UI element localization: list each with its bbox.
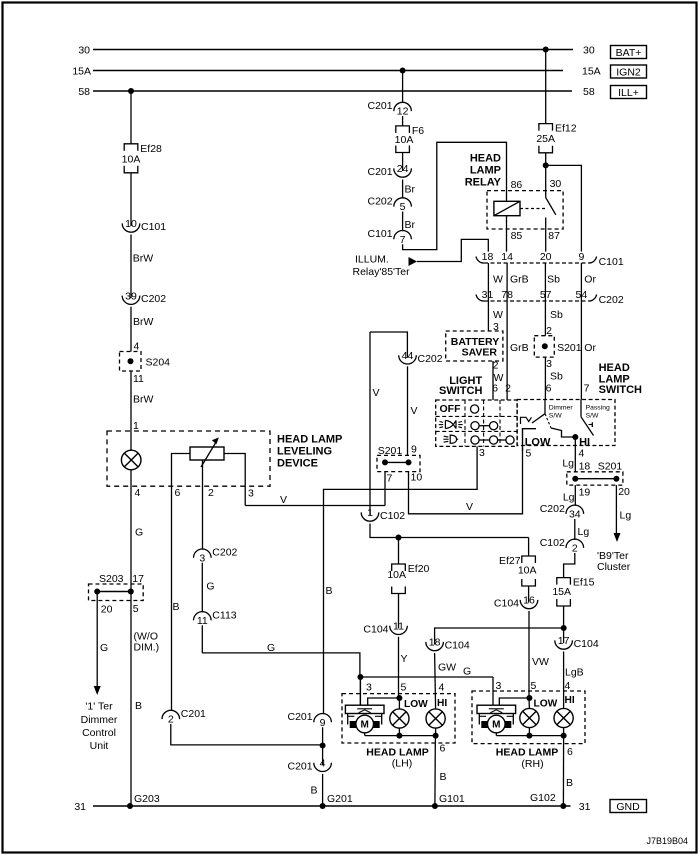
svg-text:BrW: BrW bbox=[133, 253, 154, 265]
svg-text:Sb: Sb bbox=[547, 274, 560, 286]
svg-text:39: 39 bbox=[125, 290, 137, 302]
svg-text:18: 18 bbox=[482, 251, 494, 263]
svg-text:C104: C104 bbox=[574, 638, 599, 650]
svg-text:HEAD: HEAD bbox=[599, 362, 630, 374]
svg-text:7: 7 bbox=[584, 382, 590, 394]
svg-text:17: 17 bbox=[558, 635, 570, 647]
svg-text:7: 7 bbox=[387, 473, 393, 485]
svg-text:30: 30 bbox=[78, 45, 90, 57]
svg-text:85: 85 bbox=[511, 230, 523, 242]
svg-text:LOW: LOW bbox=[534, 699, 558, 710]
svg-text:C201: C201 bbox=[367, 100, 392, 112]
svg-text:HEAD LAMP: HEAD LAMP bbox=[277, 434, 342, 446]
svg-text:SWITCH: SWITCH bbox=[599, 384, 642, 396]
svg-text:HI: HI bbox=[437, 698, 447, 709]
svg-text:4: 4 bbox=[565, 680, 571, 692]
svg-text:10A: 10A bbox=[518, 565, 537, 577]
svg-text:5: 5 bbox=[531, 680, 537, 692]
svg-text:G: G bbox=[267, 642, 275, 654]
svg-text:BAT+: BAT+ bbox=[616, 47, 642, 59]
svg-text:18: 18 bbox=[429, 637, 441, 649]
svg-text:15A: 15A bbox=[582, 66, 601, 78]
svg-text:HI: HI bbox=[579, 436, 590, 448]
svg-text:Ef20: Ef20 bbox=[408, 563, 430, 575]
svg-text:Lg: Lg bbox=[562, 458, 574, 470]
svg-text:Relay'85'Ter: Relay'85'Ter bbox=[353, 266, 411, 278]
svg-text:5: 5 bbox=[400, 201, 406, 213]
svg-text:B: B bbox=[440, 771, 447, 783]
svg-text:Cluster: Cluster bbox=[597, 561, 631, 573]
svg-text:15A: 15A bbox=[552, 586, 571, 598]
svg-text:G101: G101 bbox=[439, 793, 465, 805]
svg-text:10: 10 bbox=[411, 472, 423, 484]
svg-text:'1' Ter: '1' Ter bbox=[85, 701, 113, 713]
svg-text:9: 9 bbox=[411, 444, 417, 456]
svg-text:S201: S201 bbox=[598, 461, 623, 473]
svg-text:87: 87 bbox=[548, 230, 560, 242]
svg-text:10A: 10A bbox=[122, 153, 141, 165]
svg-text:5: 5 bbox=[526, 448, 532, 460]
svg-text:OFF: OFF bbox=[440, 403, 462, 415]
svg-text:30: 30 bbox=[550, 178, 562, 190]
svg-text:M: M bbox=[361, 720, 369, 731]
svg-text:V: V bbox=[373, 387, 380, 399]
svg-text:RELAY: RELAY bbox=[465, 177, 502, 189]
svg-text:9: 9 bbox=[320, 717, 326, 729]
svg-text:HEAD LAMP: HEAD LAMP bbox=[496, 747, 558, 759]
svg-text:3: 3 bbox=[248, 488, 254, 500]
svg-text:C202: C202 bbox=[212, 547, 237, 559]
svg-text:9: 9 bbox=[578, 251, 584, 263]
svg-text:S201: S201 bbox=[378, 445, 403, 457]
svg-text:GrB: GrB bbox=[510, 274, 529, 286]
svg-text:W: W bbox=[493, 274, 503, 286]
svg-text:DEVICE: DEVICE bbox=[277, 458, 318, 470]
svg-text:1: 1 bbox=[367, 507, 373, 519]
svg-text:DIM.): DIM.) bbox=[134, 642, 160, 654]
svg-text:Or: Or bbox=[584, 274, 596, 286]
svg-text:19: 19 bbox=[579, 486, 591, 498]
svg-text:20: 20 bbox=[618, 486, 630, 498]
svg-text:Sb: Sb bbox=[550, 309, 563, 321]
svg-text:S/W: S/W bbox=[586, 412, 599, 419]
svg-text:2: 2 bbox=[505, 382, 511, 394]
svg-text:Br: Br bbox=[405, 184, 416, 196]
svg-text:C201: C201 bbox=[181, 708, 206, 720]
svg-text:34: 34 bbox=[569, 508, 581, 520]
svg-text:G: G bbox=[100, 642, 108, 654]
svg-text:44: 44 bbox=[402, 350, 414, 362]
svg-text:V: V bbox=[411, 405, 418, 417]
svg-text:11: 11 bbox=[393, 621, 404, 633]
svg-text:Unit: Unit bbox=[90, 740, 109, 752]
svg-text:31: 31 bbox=[482, 289, 494, 301]
svg-text:(RH): (RH) bbox=[521, 758, 543, 770]
svg-text:16: 16 bbox=[523, 595, 535, 607]
svg-text:C202: C202 bbox=[540, 503, 565, 515]
svg-text:B: B bbox=[326, 585, 333, 597]
svg-text:4: 4 bbox=[135, 487, 141, 499]
svg-text:C101: C101 bbox=[141, 221, 166, 233]
svg-text:4: 4 bbox=[320, 758, 326, 770]
svg-text:24: 24 bbox=[397, 163, 409, 175]
svg-text:Passing: Passing bbox=[586, 405, 610, 412]
svg-text:2: 2 bbox=[168, 714, 174, 726]
svg-text:14: 14 bbox=[501, 251, 513, 263]
svg-text:58: 58 bbox=[583, 86, 595, 98]
svg-text:GND: GND bbox=[616, 801, 640, 813]
svg-text:Control: Control bbox=[82, 727, 116, 739]
svg-text:2: 2 bbox=[493, 360, 499, 372]
svg-text:Y: Y bbox=[401, 653, 408, 665]
svg-text:6: 6 bbox=[440, 743, 446, 755]
svg-text:11: 11 bbox=[197, 615, 208, 627]
svg-text:Ef28: Ef28 bbox=[140, 143, 162, 155]
svg-text:G203: G203 bbox=[134, 793, 160, 805]
svg-text:Sb: Sb bbox=[550, 371, 563, 383]
svg-text:GW: GW bbox=[438, 662, 456, 674]
svg-text:F6: F6 bbox=[412, 125, 424, 137]
svg-text:B: B bbox=[173, 601, 180, 613]
svg-text:6: 6 bbox=[567, 746, 573, 758]
svg-text:12: 12 bbox=[397, 106, 409, 118]
svg-text:C201: C201 bbox=[367, 166, 392, 178]
svg-text:C104: C104 bbox=[363, 623, 388, 635]
svg-text:V: V bbox=[280, 494, 287, 506]
svg-text:G: G bbox=[463, 666, 471, 678]
svg-text:C104: C104 bbox=[445, 640, 470, 652]
svg-text:86: 86 bbox=[511, 179, 523, 191]
svg-text:ILLUM.: ILLUM. bbox=[355, 254, 389, 266]
svg-text:C102: C102 bbox=[540, 537, 565, 549]
svg-text:Br: Br bbox=[405, 219, 416, 231]
svg-text:Lg: Lg bbox=[620, 510, 632, 522]
svg-text:B: B bbox=[135, 700, 142, 712]
svg-text:C104: C104 bbox=[494, 598, 519, 610]
svg-text:B: B bbox=[310, 785, 317, 797]
svg-text:LOW: LOW bbox=[404, 699, 428, 710]
svg-text:2: 2 bbox=[572, 542, 578, 554]
svg-text:C202: C202 bbox=[599, 294, 624, 306]
svg-text:LAMP: LAMP bbox=[470, 165, 501, 177]
svg-text:3: 3 bbox=[366, 682, 372, 694]
svg-text:15A: 15A bbox=[72, 66, 91, 78]
svg-text:7: 7 bbox=[400, 234, 406, 246]
svg-text:10A: 10A bbox=[395, 134, 414, 146]
svg-text:Dimmer: Dimmer bbox=[81, 714, 118, 726]
svg-text:Ef12: Ef12 bbox=[555, 123, 577, 135]
svg-text:HEAD: HEAD bbox=[470, 153, 501, 165]
svg-text:C201: C201 bbox=[287, 760, 312, 772]
svg-text:VW: VW bbox=[532, 656, 549, 668]
svg-text:Dimmer: Dimmer bbox=[549, 405, 574, 412]
svg-text:4: 4 bbox=[134, 341, 140, 353]
svg-text:S203: S203 bbox=[99, 573, 124, 585]
svg-text:30: 30 bbox=[583, 45, 595, 57]
svg-text:BrW: BrW bbox=[133, 316, 154, 328]
svg-text:S201: S201 bbox=[557, 342, 582, 354]
svg-text:SAVER: SAVER bbox=[462, 346, 498, 358]
svg-text:5: 5 bbox=[133, 603, 139, 615]
svg-text:C102: C102 bbox=[380, 510, 405, 522]
svg-text:10A: 10A bbox=[387, 569, 406, 581]
svg-text:10: 10 bbox=[125, 218, 137, 230]
svg-text:J7B19B04: J7B19B04 bbox=[646, 836, 688, 846]
svg-text:(LH): (LH) bbox=[392, 758, 412, 770]
svg-text:20: 20 bbox=[540, 251, 552, 263]
svg-text:C101: C101 bbox=[599, 256, 624, 268]
svg-text:18: 18 bbox=[579, 461, 591, 473]
svg-text:6: 6 bbox=[546, 382, 552, 394]
svg-text:58: 58 bbox=[78, 86, 90, 98]
svg-text:1: 1 bbox=[133, 420, 139, 432]
svg-text:31: 31 bbox=[74, 801, 86, 813]
svg-text:G201: G201 bbox=[327, 793, 353, 805]
svg-text:W: W bbox=[493, 309, 503, 321]
svg-text:C113: C113 bbox=[212, 609, 236, 621]
svg-text:M: M bbox=[492, 720, 500, 731]
svg-text:IGN2: IGN2 bbox=[616, 67, 641, 79]
svg-text:ILL+: ILL+ bbox=[618, 87, 639, 99]
svg-text:Lg: Lg bbox=[578, 526, 590, 538]
svg-text:V: V bbox=[466, 501, 473, 513]
svg-text:3: 3 bbox=[546, 358, 552, 370]
svg-text:G102: G102 bbox=[530, 792, 556, 804]
svg-text:SWITCH: SWITCH bbox=[439, 385, 482, 397]
svg-text:LOW: LOW bbox=[525, 436, 551, 448]
svg-text:4: 4 bbox=[439, 682, 445, 694]
svg-text:C202: C202 bbox=[418, 353, 443, 365]
svg-text:17: 17 bbox=[132, 573, 144, 585]
svg-text:5: 5 bbox=[401, 682, 407, 694]
svg-text:G: G bbox=[206, 581, 214, 593]
svg-text:3: 3 bbox=[199, 552, 205, 564]
svg-text:G: G bbox=[135, 527, 143, 539]
svg-text:Lg: Lg bbox=[563, 492, 575, 504]
svg-text:GrB: GrB bbox=[510, 342, 529, 354]
svg-text:2: 2 bbox=[208, 487, 214, 499]
svg-text:11: 11 bbox=[133, 373, 144, 385]
svg-text:25A: 25A bbox=[536, 133, 555, 145]
svg-text:6: 6 bbox=[492, 382, 498, 394]
svg-text:20: 20 bbox=[101, 604, 113, 616]
svg-text:C202: C202 bbox=[141, 293, 166, 305]
svg-text:HI: HI bbox=[565, 695, 575, 706]
svg-text:4: 4 bbox=[579, 448, 585, 460]
svg-text:6: 6 bbox=[175, 487, 181, 499]
svg-text:31: 31 bbox=[579, 801, 591, 813]
svg-text:C201: C201 bbox=[287, 711, 312, 723]
svg-text:B: B bbox=[566, 777, 573, 789]
svg-text:LgB: LgB bbox=[565, 667, 584, 679]
svg-text:S/W: S/W bbox=[549, 412, 562, 419]
svg-text:3: 3 bbox=[479, 447, 485, 459]
svg-text:C202: C202 bbox=[367, 196, 392, 208]
svg-text:S204: S204 bbox=[146, 357, 171, 369]
svg-text:C101: C101 bbox=[367, 228, 392, 240]
svg-text:BrW: BrW bbox=[133, 394, 154, 406]
svg-text:LEVELING: LEVELING bbox=[277, 446, 332, 458]
svg-text:3: 3 bbox=[496, 680, 502, 692]
svg-text:Ef15: Ef15 bbox=[573, 577, 595, 589]
svg-text:Or: Or bbox=[584, 342, 596, 354]
